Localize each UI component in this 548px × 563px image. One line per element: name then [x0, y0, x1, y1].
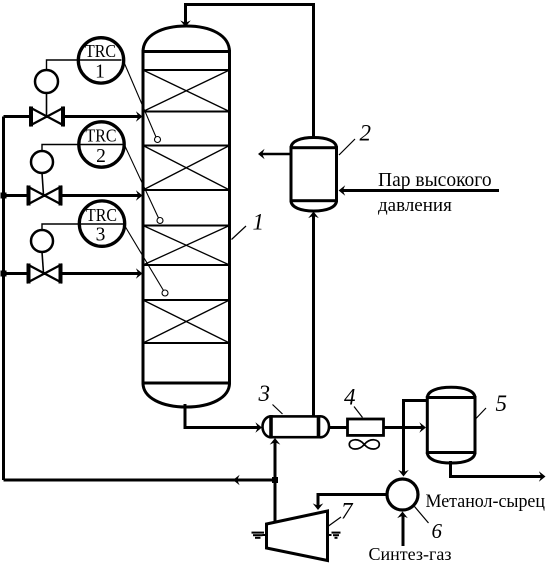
svg-text:Синтез-газ: Синтез-газ [369, 544, 452, 563]
svg-text:1: 1 [95, 62, 105, 83]
svg-text:TRC: TRC [86, 205, 117, 225]
svg-text:2: 2 [96, 146, 106, 167]
svg-text:7: 7 [341, 499, 354, 524]
svg-text:TRC: TRC [85, 41, 116, 61]
svg-text:5: 5 [496, 391, 508, 416]
svg-text:1: 1 [253, 210, 265, 235]
svg-text:3: 3 [96, 225, 106, 246]
svg-text:4: 4 [344, 385, 356, 410]
svg-text:TRC: TRC [86, 125, 117, 145]
svg-text:6: 6 [432, 519, 443, 543]
svg-text:давления: давления [378, 195, 452, 216]
svg-text:Метанол-сырец: Метанол-сырец [426, 491, 546, 512]
svg-text:3: 3 [258, 381, 271, 406]
svg-text:2: 2 [360, 121, 372, 146]
svg-text:Пар высокого: Пар высокого [378, 170, 492, 191]
